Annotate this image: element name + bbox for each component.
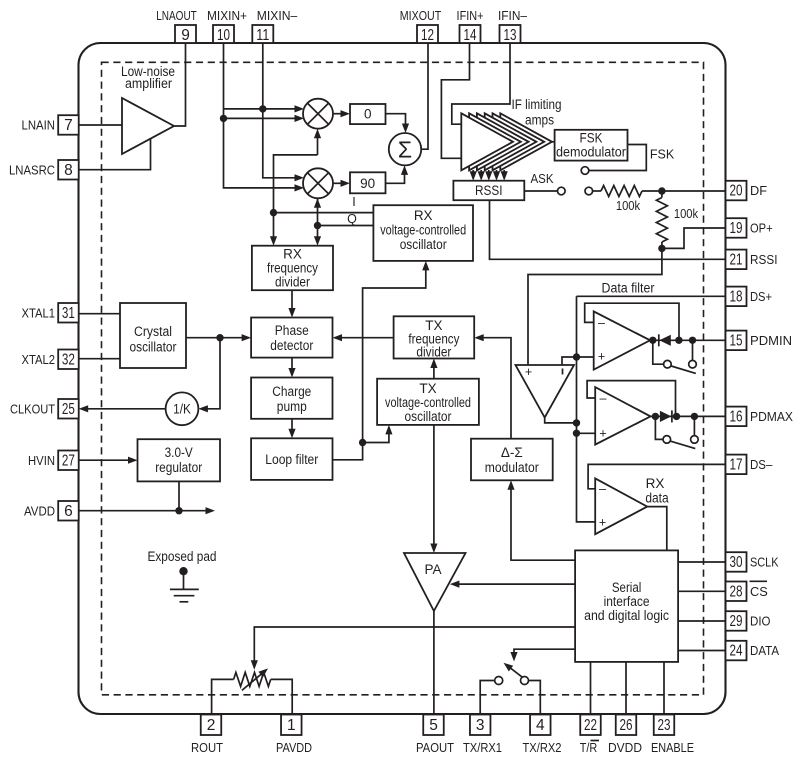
svg-text:17: 17	[730, 457, 743, 474]
svg-text:+: +	[599, 427, 606, 441]
wire regulator output to AVDD rail	[178, 481, 180, 510]
svg-text:PA: PA	[424, 562, 441, 577]
svg-text:Q: Q	[347, 212, 357, 226]
pin 13 IFIN– (top)	[500, 25, 521, 43]
svg-text:16: 16	[730, 409, 743, 426]
low-noise amplifier	[122, 98, 174, 154]
mixer 2 (Q)	[303, 168, 333, 198]
pin 4 TX/RX2 (bottom)	[530, 715, 551, 736]
pin 24 DATA (right)	[726, 641, 747, 661]
svg-text:21: 21	[730, 252, 743, 269]
svg-text:DIO: DIO	[750, 614, 771, 629]
wire LNA output to pin9 LNAOUT	[174, 43, 186, 126]
svg-text:XTAL1: XTAL1	[22, 305, 56, 320]
svg-text:pump: pump	[277, 399, 307, 414]
svg-text:FSK: FSK	[580, 131, 603, 146]
svg-text:frequency: frequency	[267, 261, 318, 276]
wire mixer1 to 0 box	[333, 113, 341, 115]
node DF junction	[658, 187, 665, 194]
svg-text:I: I	[352, 195, 355, 209]
mixer 1 (I)	[303, 99, 333, 129]
pin 21 RSSI (right)	[726, 250, 747, 270]
wire loop filter to VCOs	[333, 264, 426, 460]
svg-text:RSSI: RSSI	[750, 252, 778, 267]
svg-text:RX: RX	[414, 208, 433, 223]
svg-text:divider: divider	[275, 275, 310, 290]
svg-text:31: 31	[62, 305, 75, 322]
DF input terminal	[585, 187, 593, 195]
svg-text:20: 20	[730, 183, 743, 200]
svg-text:data: data	[645, 491, 669, 506]
wire pin10 MIXIN+ vertical	[224, 43, 295, 188]
wire FSK demodulator output	[589, 145, 647, 171]
svg-text:90: 90	[360, 176, 375, 191]
svg-text:Charge: Charge	[272, 384, 311, 399]
svg-text:18: 18	[730, 289, 743, 306]
svg-text:divider: divider	[416, 345, 451, 360]
svg-text:+: +	[525, 365, 532, 379]
wire serial to pin22	[590, 662, 592, 715]
wire junction to pin19 OP+	[662, 228, 726, 248]
svg-text:1/K: 1/K	[173, 402, 191, 417]
wire PDMAX output to pin16	[651, 415, 726, 417]
wire serial to PA control	[453, 583, 575, 585]
charge pump	[251, 378, 332, 419]
wire pin4 TX/RX2	[529, 681, 541, 715]
svg-text:19: 19	[730, 220, 743, 237]
FSK demodulator	[555, 130, 628, 161]
pin 10 MIXIN+ (top)	[213, 25, 234, 43]
svg-text:+: +	[598, 350, 605, 364]
inner dashed boundary	[102, 62, 704, 695]
pin 18 DS+ (right)	[726, 287, 747, 307]
wire mixer1 lower input	[224, 117, 295, 119]
svg-text:LNAIN: LNAIN	[22, 118, 56, 133]
wire phase detector to charge pump	[291, 358, 293, 375]
wire pin11 MIXIN- vertical	[263, 43, 295, 178]
diode (PDMAX, cathode right)	[660, 411, 672, 422]
wire pin1 PAVDD leg	[271, 679, 293, 714]
wire junction to 1/K divider	[201, 338, 220, 409]
svg-text:CS: CS	[750, 584, 768, 599]
wire data slicer output	[545, 418, 577, 423]
svg-text:Data filter: Data filter	[602, 281, 655, 296]
svg-text:24: 24	[730, 643, 743, 660]
svg-text:22: 22	[584, 717, 597, 734]
svg-text:100k: 100k	[616, 199, 641, 213]
svg-text:8: 8	[64, 162, 73, 179]
wire RX data output to serial interface	[647, 507, 667, 551]
svg-text:TX/RX2: TX/RX2	[523, 741, 562, 755]
switch terminal TX/RX1	[495, 677, 503, 685]
svg-text:11: 11	[256, 27, 269, 44]
pin 12 MIXOUT (top)	[417, 25, 438, 43]
svg-text:ENABLE: ENABLE	[651, 741, 694, 755]
svg-text:2: 2	[207, 717, 216, 734]
wire serial to pin23	[663, 662, 665, 715]
svg-text:5: 5	[429, 717, 438, 734]
svg-text:Phase: Phase	[275, 323, 309, 338]
svg-text:XTAL2: XTAL2	[22, 352, 56, 367]
svg-text:amps: amps	[525, 113, 554, 128]
op-amp peak detector PDMIN	[594, 311, 650, 369]
svg-text:oscillator: oscillator	[130, 340, 177, 355]
svg-text:SCLK: SCLK	[750, 555, 779, 570]
wire pin6 AVDD rail	[79, 510, 212, 512]
svg-text:TX/RX1: TX/RX1	[463, 741, 502, 755]
pin 31 XTAL1 (left)	[58, 303, 78, 323]
svg-text:4: 4	[536, 717, 545, 734]
FSK output terminal	[581, 167, 589, 175]
wire crystal osc to phase detector	[186, 337, 248, 339]
delta-sigma modulator	[471, 439, 553, 481]
wire pin18 DS+ to filter node	[577, 295, 726, 297]
svg-text:29: 29	[730, 613, 743, 630]
wire summer to pin12 MIXOUT	[421, 43, 428, 149]
pin 11 MIXIN– (top)	[252, 25, 273, 43]
wire to pin20 DF	[662, 190, 726, 192]
svg-text:voltage-controlled: voltage-controlled	[385, 395, 471, 410]
node reference junction	[216, 334, 223, 341]
TX voltage-controlled oscillator	[377, 379, 479, 425]
svg-text:MIXIN+: MIXIN+	[207, 9, 247, 23]
wire last amp to FSK demodulator	[552, 141, 555, 143]
wire serial to pin26	[625, 662, 627, 715]
svg-text:oscillator: oscillator	[400, 237, 447, 252]
wire DS+ vertical bus	[577, 296, 596, 522]
switch (PDMIN reset)	[653, 340, 664, 364]
svg-text:RSSI: RSSI	[475, 183, 503, 198]
wire branch to PDMIN opamp + input	[577, 356, 594, 358]
RSSI block	[453, 181, 524, 201]
crystal oscillator	[120, 303, 186, 368]
wire charge pump to loop filter	[291, 419, 293, 436]
svg-text:DF: DF	[750, 183, 767, 198]
svg-text:Σ: Σ	[398, 137, 412, 163]
svg-text:Δ-Σ: Δ-Σ	[501, 445, 523, 460]
op-amp peak detector PDMAX	[595, 387, 650, 445]
wiper arrow	[242, 671, 265, 690]
svg-text:LNASRC: LNASRC	[9, 162, 55, 177]
wire serial to pin30 SCLK	[678, 561, 725, 563]
node tune junction	[359, 439, 366, 446]
wire pin3 TX/RX1	[480, 681, 495, 715]
wire I line to RX VCO	[274, 212, 374, 214]
svg-text:12: 12	[421, 27, 434, 44]
svg-text:modulator: modulator	[485, 460, 539, 475]
wire TX divider to phase detector	[335, 337, 393, 339]
pin 15 PDMIN (right)	[726, 331, 747, 351]
wire pin17 DS- to RX data - input	[588, 464, 725, 488]
wire branch to data slicer - input	[562, 357, 577, 365]
pin 3 TX/RX1 (bottom)	[470, 715, 491, 736]
wire RX divider to phase detector	[291, 290, 293, 315]
svg-text:+: +	[599, 516, 606, 530]
wire serial to pin29 DIO	[678, 620, 725, 622]
pin 30 SCLK (right)	[726, 552, 747, 572]
svg-text:28: 28	[730, 584, 743, 601]
wire 90 box to summer	[386, 168, 405, 183]
pin 8 LNASRC (left)	[58, 160, 78, 180]
phase shift box 90	[350, 172, 386, 193]
svg-text:100k: 100k	[674, 207, 699, 221]
loop filter	[251, 438, 332, 480]
diode (PDMIN, cathode left)	[658, 334, 660, 346]
RX frequency divider	[252, 246, 333, 291]
svg-text:3.0-V: 3.0-V	[165, 445, 193, 460]
pin 20 DF (right)	[726, 181, 747, 201]
svg-text:LNAOUT: LNAOUT	[156, 9, 197, 23]
svg-text:23: 23	[658, 717, 671, 734]
node slicer out junction	[573, 419, 580, 426]
switch terminal TX/RX2	[521, 677, 529, 685]
svg-text:14: 14	[464, 27, 477, 44]
svg-text:6: 6	[64, 503, 73, 520]
svg-text:25: 25	[62, 401, 75, 418]
svg-text:7: 7	[64, 117, 73, 134]
svg-text:voltage-controlled: voltage-controlled	[380, 223, 466, 238]
wire pin32 XTAL2	[79, 358, 120, 360]
IF limiting amps (6 cascaded)	[500, 113, 552, 170]
svg-text:DS+: DS+	[750, 289, 772, 304]
svg-text:–: –	[600, 392, 607, 406]
svg-text:32: 32	[62, 351, 75, 368]
svg-text:demodulator: demodulator	[556, 145, 626, 160]
wire pin7 LNAIN to LNA input	[79, 124, 122, 126]
svg-text:MIXIN–: MIXIN–	[257, 9, 298, 23]
pin 9 LNAOUT (top)	[175, 25, 196, 43]
pin 2 ROUT (bottom)	[201, 715, 222, 736]
svg-text:27: 27	[62, 452, 75, 469]
junction on MIXIN- line	[259, 105, 266, 112]
svg-text:CLKOUT: CLKOUT	[10, 401, 55, 416]
svg-text:regulator: regulator	[155, 460, 202, 475]
divider 1/K	[166, 392, 199, 425]
pin 29 DIO (right)	[726, 611, 747, 631]
svg-text:DS–: DS–	[750, 457, 773, 472]
wire pin31 XTAL1	[79, 313, 120, 315]
wire 1/K to pin25 CLKOUT	[82, 408, 166, 410]
pin 28 CS (right)	[726, 582, 747, 602]
summer sigma	[389, 133, 421, 165]
chip outline	[79, 43, 726, 714]
pin 16 PDMAX (right)	[726, 407, 747, 427]
wire pin27 HVIN to regulator	[79, 459, 135, 461]
wire serial to power setting resistor	[254, 627, 575, 667]
comparator RX data	[595, 478, 647, 534]
wire serial to pin24 DATA	[678, 650, 725, 652]
wire branch to PDMAX opamp + input	[577, 432, 596, 434]
svg-text:PAVDD: PAVDD	[276, 741, 312, 755]
svg-text:0: 0	[364, 107, 372, 122]
pin 7 LNAIN (left)	[58, 115, 78, 135]
wire Q line to RX VCO	[318, 225, 374, 227]
svg-text:IFIN+: IFIN+	[457, 9, 484, 23]
wire pin8 LNASRC to LNA lower edge	[79, 139, 151, 170]
variable resistor (PA power)	[234, 672, 271, 686]
pin 25 CLKOUT (left)	[58, 399, 78, 419]
wire mixer2 to 90 box	[333, 182, 341, 184]
svg-text:OP+: OP+	[750, 221, 773, 236]
svg-text:30: 30	[730, 554, 743, 571]
pin 22 T/R (bottom)	[580, 715, 601, 736]
pin 23 ENABLE (bottom)	[654, 715, 675, 736]
wire junction to data slicer + input	[528, 248, 662, 365]
svg-text:T/R: T/R	[580, 741, 598, 755]
svg-text:RX: RX	[646, 476, 665, 491]
svg-text:–: –	[598, 316, 605, 330]
ASK output terminal	[558, 187, 566, 195]
phase shift box 0	[350, 104, 386, 124]
svg-text:interface: interface	[604, 594, 650, 609]
svg-text:1: 1	[287, 717, 296, 734]
pin 14 IFIN+ (top)	[460, 25, 481, 43]
wire serial to pin28 CS	[678, 590, 725, 592]
resistor 100k (shunt)	[661, 191, 663, 198]
nodes on PDMAX output	[652, 413, 659, 420]
serial interface and digital logic	[575, 550, 678, 662]
pin 27 HVIN (left)	[58, 451, 78, 471]
svg-text:15: 15	[730, 333, 743, 350]
3.0-V regulator	[138, 439, 221, 481]
svg-text:ASK: ASK	[531, 172, 555, 186]
svg-text:MIXOUT: MIXOUT	[400, 9, 442, 23]
junction on MIXIN+ line	[220, 115, 227, 122]
svg-text:3: 3	[476, 717, 485, 734]
pin 26 DVDD (bottom)	[616, 715, 637, 736]
wire pin2 ROUT leg	[212, 679, 234, 714]
wire PDMIN feedback loop	[585, 303, 679, 340]
wire serial to TX/RX switch	[514, 649, 575, 658]
node AVDD junction	[175, 507, 182, 514]
svg-text:26: 26	[620, 717, 633, 734]
wire RSSI to ASK terminal	[524, 190, 557, 192]
svg-text:amplifier: amplifier	[125, 76, 172, 91]
svg-text:–: –	[599, 482, 606, 496]
wire PDMIN output to pin15	[650, 339, 725, 341]
wire TX VCO to TX divider	[433, 361, 435, 378]
wire TX VCO to PA	[433, 425, 435, 550]
wire serial to delta-sigma	[511, 483, 575, 560]
node I junction	[270, 209, 277, 216]
TX frequency divider	[394, 316, 475, 358]
power amplifier PA	[404, 553, 466, 611]
pin 32 XTAL2 (left)	[58, 350, 78, 370]
svg-text:PDMIN: PDMIN	[750, 333, 792, 348]
svg-text:and digital logic: and digital logic	[584, 608, 669, 623]
svg-text:IFIN–: IFIN–	[498, 9, 527, 23]
pin 5 PAOUT (bottom)	[423, 715, 444, 736]
wire PA output to pin5 PAOUT	[433, 611, 435, 715]
svg-text:DVDD: DVDD	[608, 741, 642, 755]
svg-text:13: 13	[504, 27, 517, 44]
svg-text:9: 9	[181, 27, 190, 44]
svg-text:HVIN: HVIN	[28, 453, 55, 468]
svg-text:Crystal: Crystal	[134, 324, 172, 339]
nodes on PDMIN output	[649, 337, 656, 344]
svg-text:AVDD: AVDD	[24, 503, 55, 518]
node slicer ref junction	[573, 353, 580, 360]
svg-text:PDMAX: PDMAX	[750, 409, 793, 424]
svg-text:Exposed pad: Exposed pad	[148, 549, 217, 564]
pin 19 OP+ (right)	[726, 218, 747, 238]
pin 6 AVDD (left)	[58, 501, 78, 521]
svg-text:oscillator: oscillator	[405, 409, 452, 424]
wire mixer1 upper input	[224, 108, 295, 110]
svg-text:IF limiting: IF limiting	[512, 97, 562, 112]
svg-text:RX: RX	[283, 247, 302, 262]
svg-text:detector: detector	[270, 338, 313, 353]
wire pin14 IFIN+ to IF amps lower input	[441, 43, 469, 158]
exposed pad node	[179, 567, 187, 575]
wire 0 box to summer	[386, 114, 406, 131]
svg-text:FSK: FSK	[650, 148, 675, 162]
RX voltage-controlled oscillator	[373, 205, 473, 261]
RSSI sense arrows	[472, 170, 474, 174]
phase detector	[251, 318, 332, 358]
resistor 100k (series)	[593, 190, 601, 192]
svg-text:PAOUT: PAOUT	[416, 741, 454, 755]
node Q junction	[314, 222, 321, 229]
switch (PDMAX reset)	[655, 416, 662, 439]
svg-text:10: 10	[217, 27, 230, 44]
wire junction to TX VCO	[363, 428, 389, 443]
svg-text:TX: TX	[419, 381, 436, 396]
svg-text:Loop filter: Loop filter	[265, 452, 318, 467]
wire delta-sigma to TX divider	[477, 338, 511, 439]
node divider junction	[658, 245, 665, 252]
wire PDMAX feedback loop	[587, 381, 675, 417]
svg-text:Serial: Serial	[612, 580, 642, 595]
pin 1 PAVDD (bottom)	[281, 715, 302, 736]
wire Q LO feed to mixer2 and RX divider	[317, 198, 319, 243]
ground	[183, 571, 185, 589]
pin 17 DS– (right)	[726, 455, 747, 475]
svg-text:ROUT: ROUT	[191, 741, 223, 755]
svg-text:DATA: DATA	[750, 643, 779, 658]
data slicer comparator	[516, 365, 575, 418]
switch TX/RX blade	[506, 665, 522, 678]
wire I LO feed to mixer1 and RX divider	[317, 132, 319, 155]
wire pin13 IFIN- to IF amps upper input	[452, 43, 510, 124]
wire RSSI to pin21	[490, 200, 726, 259]
